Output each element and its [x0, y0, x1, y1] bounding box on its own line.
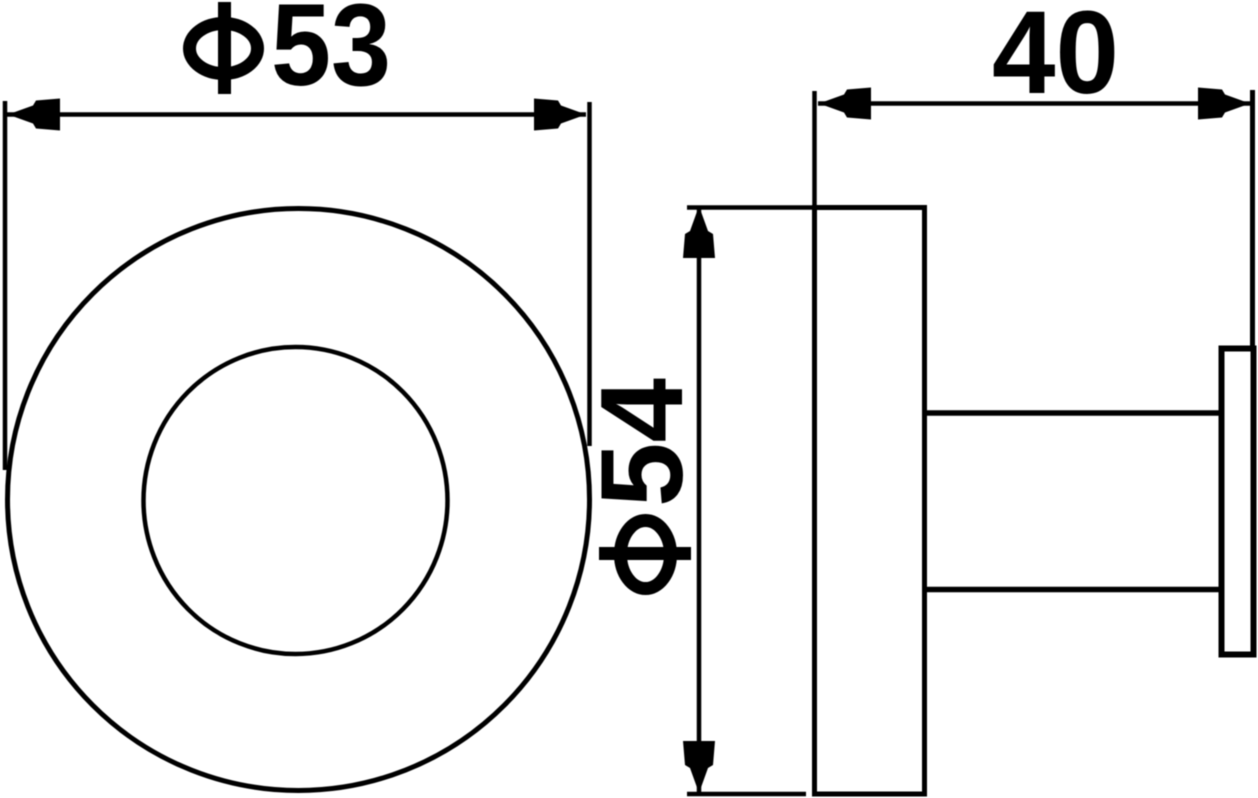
- extension line left of 40 (collinear with plate left edge): [812, 91, 817, 207]
- label Φ53: [190, 0, 392, 110]
- svg-text:53: 53: [271, 0, 391, 110]
- svg-text:40: 40: [992, 0, 1119, 119]
- mounting plate (side view rectangle): [815, 208, 925, 795]
- inner circle (front view, hub): [144, 347, 448, 654]
- arrowhead right of Φ53 dimension: [534, 99, 586, 131]
- knob head bar (side view rectangle): [1222, 349, 1254, 655]
- stem top line (side view): [927, 410, 1222, 416]
- extension line bottom of Φ54: [687, 792, 806, 797]
- extension line right of 40 (collinear with knob bar right edge): [1250, 90, 1255, 350]
- svg-text:54: 54: [576, 378, 707, 507]
- stem bottom line (side view): [927, 587, 1222, 593]
- label Φ54 (rotated): [576, 378, 707, 589]
- arrowhead left of Φ53 dimension: [8, 99, 60, 131]
- extension line right of Φ53: [587, 102, 592, 446]
- extension line top of Φ54: [687, 205, 922, 210]
- dimension line Φ54 (vertical): [697, 206, 702, 793]
- arrowhead bottom of Φ54 dimension: [683, 741, 715, 793]
- outer circle (front view, Φ53 flange): [8, 209, 590, 791]
- extension line left of Φ53: [3, 101, 8, 470]
- dimension line 40: [818, 101, 1250, 106]
- arrowhead right of 40 dimension: [1198, 88, 1250, 120]
- arrowhead left of 40 dimension: [819, 88, 871, 120]
- arrowhead top of Φ54 dimension: [683, 206, 715, 258]
- dimension line Φ53: [7, 112, 586, 117]
